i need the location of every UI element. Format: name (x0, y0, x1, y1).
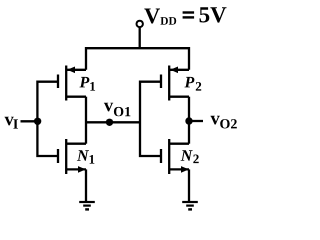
wire input net of inverter 2 to gates of P2,N2 (140, 82, 161, 156)
label vO2 (output node 2) (211, 116, 237, 129)
label vI (input node) (5, 117, 18, 129)
label N1 (77, 150, 95, 163)
wire P2 drain to N2 drain (188, 97, 190, 144)
label VDD = 5V value (144, 7, 226, 24)
label P2 (185, 77, 202, 91)
wire P1 drain to N1 drain (85, 97, 87, 144)
label vO1 (output node 1) (104, 103, 130, 117)
wire VDD rail (86, 48, 189, 70)
arrow N2 source (points right) (181, 166, 189, 173)
wire vI lead (21, 120, 38, 122)
junction dot vO1 (106, 119, 113, 126)
label N2 (181, 150, 199, 163)
junction dot vI (34, 118, 41, 125)
ground symbol under N1 (79, 202, 95, 209)
arrow P2 source (points left) (170, 67, 178, 74)
transistor N1 (58, 139, 86, 174)
wire vO1 net (86, 121, 140, 123)
arrow N1 source (points right) (78, 166, 86, 173)
arrow P1 source (points left) (67, 67, 75, 74)
wire N2 source to ground (188, 169, 190, 201)
transistor N2 (161, 139, 189, 174)
wire VDD stub (139, 27, 141, 48)
wire input net vI to gates of P1,N1 (37, 82, 58, 156)
label P1 (80, 77, 96, 91)
junction dot vO2 (185, 117, 192, 124)
wire N1 source to ground (85, 169, 87, 201)
node VDD terminal (137, 21, 143, 27)
transistor P1 (58, 66, 86, 101)
wire vO2 lead (189, 120, 203, 122)
transistor P2 (161, 66, 189, 101)
ground symbol under N2 (182, 202, 198, 209)
